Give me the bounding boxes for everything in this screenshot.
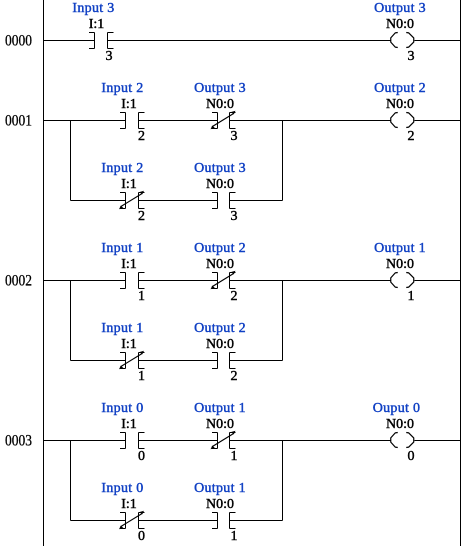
coil OTE N0:0/2 (Output 2) [374, 81, 426, 144]
wire: rung 0002 branch to first branch contact [71, 360, 127, 362]
contact XIC I:1/3 (Input 3) [72, 1, 114, 64]
svg-text:N0:0: N0:0 [386, 17, 414, 32]
contact XIO I:1/0 (Input 0) [101, 481, 145, 544]
wire: rung 0003 left rail to first contact [44, 440, 127, 442]
svg-text:1: 1 [231, 529, 238, 544]
svg-text:3: 3 [231, 209, 238, 224]
coil OTE N0:0/1 (Output 1) [374, 241, 426, 304]
svg-text:Output 2: Output 2 [194, 321, 246, 336]
svg-text:2: 2 [231, 369, 238, 384]
svg-text:Output 3: Output 3 [194, 81, 246, 96]
wire: rung 0003 first to second contact [139, 440, 218, 442]
svg-text:Output 3: Output 3 [194, 161, 246, 176]
wire: rung 0003 branch right vertical [282, 441, 284, 521]
svg-text:2: 2 [138, 209, 145, 224]
svg-text:0: 0 [138, 529, 145, 544]
coil OTE N0:0/0 (Ouput 0) [373, 401, 421, 464]
wire: rung 0003 coil to right rail [414, 440, 460, 442]
wire: rung 0002 first to second contact [139, 280, 218, 282]
svg-text:0: 0 [408, 449, 415, 464]
wire: rung 0002 branch left vertical [70, 281, 72, 361]
wire: rung 0002 second contact to coil [230, 280, 390, 282]
svg-text:3: 3 [231, 129, 238, 144]
wire: rung 0003 second contact to coil [230, 440, 390, 442]
svg-text:I:1: I:1 [121, 257, 137, 272]
svg-text:Input 0: Input 0 [101, 401, 143, 416]
wire: rung 0001 left rail to first contact [44, 120, 127, 122]
svg-text:I:1: I:1 [89, 17, 105, 32]
contact XIC I:1/2 (Input 2) [101, 81, 145, 144]
wire: rung 0003 branch to first branch contact [71, 520, 127, 522]
wire: rung 0002 between branch contacts [139, 360, 218, 362]
wire: rung 0002 branch right vertical [282, 281, 284, 361]
wire: rung 0000 contact to coil [108, 40, 390, 42]
wire: rung 0003 branch contact to branch right vertical [230, 520, 283, 522]
wire: rung 0001 branch left vertical [70, 121, 72, 201]
contact XIO I:1/1 (Input 1) [101, 321, 145, 384]
svg-text:N0:0: N0:0 [206, 337, 234, 352]
svg-text:Ouput 0: Ouput 0 [373, 401, 421, 416]
svg-text:0001: 0001 [5, 113, 32, 130]
svg-text:Input 0: Input 0 [101, 481, 143, 496]
contact XIC I:1/0 (Input 0) [101, 401, 145, 464]
svg-text:Input 1: Input 1 [101, 241, 143, 256]
left power rail [43, 0, 45, 546]
svg-text:N0:0: N0:0 [206, 177, 234, 192]
contact XIC N0:0/1 (Output 1) [194, 481, 246, 544]
svg-text:I:1: I:1 [121, 177, 137, 192]
wire: rung 0003 branch left vertical [70, 441, 72, 521]
svg-text:1: 1 [138, 289, 145, 304]
wire: rung 0001 second contact to coil [230, 120, 390, 122]
svg-text:Input 3: Input 3 [72, 1, 114, 16]
svg-text:0002: 0002 [5, 273, 32, 290]
svg-text:1: 1 [408, 289, 415, 304]
svg-text:I:1: I:1 [121, 97, 137, 112]
svg-text:N0:0: N0:0 [206, 97, 234, 112]
svg-text:I:1: I:1 [121, 497, 137, 512]
contact XIC N0:0/2 (Output 2) [194, 321, 246, 384]
svg-text:Output 1: Output 1 [194, 401, 246, 416]
wire: rung 0003 between branch contacts [139, 520, 218, 522]
svg-text:0: 0 [138, 449, 145, 464]
svg-text:Output 1: Output 1 [374, 241, 426, 256]
svg-text:N0:0: N0:0 [206, 497, 234, 512]
svg-text:2: 2 [138, 129, 145, 144]
svg-text:N0:0: N0:0 [386, 257, 414, 272]
svg-text:3: 3 [408, 49, 415, 64]
svg-text:N0:0: N0:0 [386, 97, 414, 112]
contact XIO N0:0/1 (Output 1) [194, 401, 246, 464]
svg-text:Output 1: Output 1 [194, 481, 246, 496]
svg-text:Output 2: Output 2 [194, 241, 246, 256]
contact XIC N0:0/3 (Output 3) [194, 161, 246, 224]
wire: rung 0000 left rail to contact I:1/3 [44, 40, 96, 42]
wire: rung 0002 branch contact to branch right vertical [230, 360, 283, 362]
wire: rung 0001 first to second contact [139, 120, 218, 122]
wire: rung 0000 coil to right rail [414, 40, 460, 42]
wire: rung 0002 coil to right rail [414, 280, 460, 282]
svg-text:Output 2: Output 2 [374, 81, 426, 96]
contact XIO N0:0/2 (Output 2) [194, 241, 246, 304]
contact XIC I:1/1 (Input 1) [101, 241, 145, 304]
wire: rung 0001 coil to right rail [414, 120, 460, 122]
wire: rung 0001 branch right vertical [282, 121, 284, 201]
svg-text:N0:0: N0:0 [206, 257, 234, 272]
svg-text:I:1: I:1 [121, 337, 137, 352]
svg-text:3: 3 [106, 49, 113, 64]
svg-text:1: 1 [138, 369, 145, 384]
svg-text:N0:0: N0:0 [206, 417, 234, 432]
wire: rung 0001 between branch contacts [139, 200, 218, 202]
wire: rung 0001 branch contact to branch right vertical [230, 200, 283, 202]
svg-text:2: 2 [408, 129, 415, 144]
svg-text:1: 1 [231, 449, 238, 464]
coil OTE N0:0/3 (Output 3) [374, 1, 426, 64]
svg-text:N0:0: N0:0 [386, 417, 414, 432]
svg-text:0003: 0003 [5, 433, 32, 450]
svg-text:2: 2 [231, 289, 238, 304]
wire: rung 0001 branch to first branch contact [71, 200, 127, 202]
contact XIO N0:0/3 (Output 3) [194, 81, 246, 144]
svg-text:Input 2: Input 2 [101, 161, 143, 176]
svg-text:Input 2: Input 2 [101, 81, 143, 96]
svg-text:Output 3: Output 3 [374, 1, 426, 16]
contact XIO I:1/2 (Input 2) [101, 161, 145, 224]
svg-text:I:1: I:1 [121, 417, 137, 432]
svg-text:0000: 0000 [5, 33, 32, 50]
svg-text:Input 1: Input 1 [101, 321, 143, 336]
right power rail [460, 0, 462, 546]
wire: rung 0002 left rail to first contact [44, 280, 127, 282]
